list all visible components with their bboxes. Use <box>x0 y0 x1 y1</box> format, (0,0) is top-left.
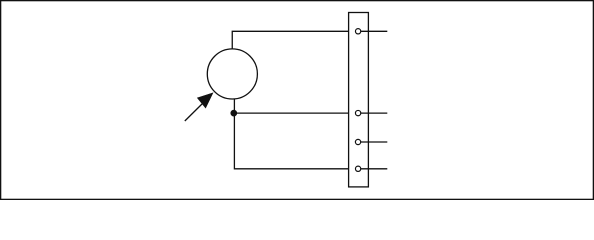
pointer arrowhead <box>197 93 213 108</box>
pointer arrow shaft <box>185 103 204 122</box>
terminal strip <box>349 13 369 187</box>
terminal 1 pin circle <box>355 29 360 34</box>
terminal 2 pin circle <box>355 110 360 115</box>
wire: terminal 3 right stub <box>361 141 387 143</box>
wire: junction to strip edge at terminal 2 <box>234 112 349 114</box>
wire: junction down and right to strip edge at terminal 4 <box>234 113 348 169</box>
wire: terminal 2 right stub <box>361 112 387 114</box>
wire: terminal 1 right stub <box>361 30 387 32</box>
wire: terminal 4 right stub <box>361 168 387 170</box>
terminal 4 pin circle <box>355 166 360 171</box>
wire: circle bottom to junction <box>233 99 235 114</box>
circle component (adjustable source/indicator) <box>207 49 257 99</box>
wire: circle top up and right to strip edge at terminal 1 <box>232 31 348 49</box>
junction dot <box>230 110 237 117</box>
terminal 3 pin circle <box>355 139 360 144</box>
